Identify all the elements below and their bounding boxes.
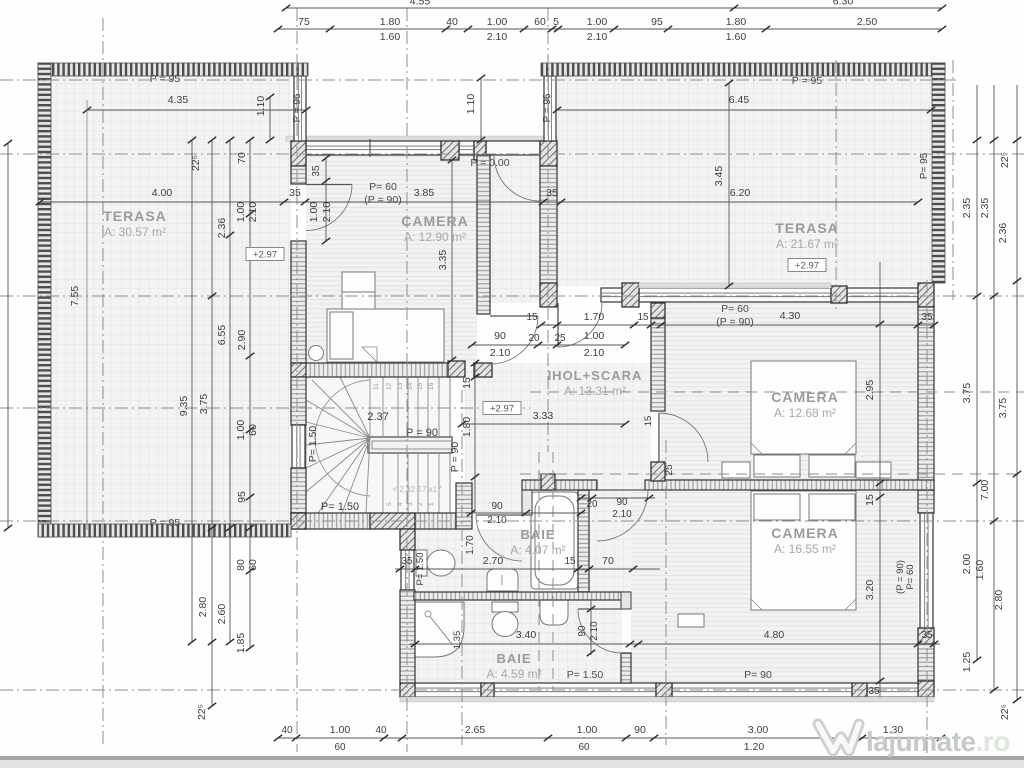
svg-text:BAIE: BAIE bbox=[520, 527, 555, 542]
door D7 baie jos bbox=[578, 608, 622, 610]
svg-text:1.60: 1.60 bbox=[726, 31, 747, 43]
svg-text:5: 5 bbox=[553, 16, 559, 28]
svg-text:1.70: 1.70 bbox=[584, 311, 605, 323]
door D5 baie sus bbox=[476, 514, 522, 516]
exterior gray trim top wall bbox=[286, 136, 557, 142]
svg-text:4.30: 4.30 bbox=[780, 310, 801, 322]
svg-text:P= 95: P= 95 bbox=[919, 152, 930, 179]
svg-text:90: 90 bbox=[491, 501, 503, 512]
svg-text:2.36: 2.36 bbox=[997, 223, 1009, 244]
svg-text:3.20: 3.20 bbox=[864, 580, 876, 601]
svg-text:P= 90: P= 90 bbox=[744, 669, 772, 681]
svg-text:3.75: 3.75 bbox=[997, 398, 1009, 419]
bottom chains bbox=[278, 737, 941, 739]
svg-text:P = 90: P = 90 bbox=[449, 442, 461, 473]
svg-text:1.00: 1.00 bbox=[584, 330, 605, 342]
camera/hol wall W4 bbox=[477, 155, 490, 314]
stair bottom wall W9 bbox=[291, 513, 306, 529]
camera 12.68 vertical x=880 bbox=[879, 262, 881, 697]
svg-text:1.00: 1.00 bbox=[235, 202, 247, 223]
svg-text:A: 16.55 m²: A: 16.55 m² bbox=[774, 542, 836, 556]
svg-text:4: 4 bbox=[397, 502, 404, 506]
P=96 window strips above bbox=[294, 76, 306, 141]
svg-text:P = 96: P = 96 bbox=[292, 93, 303, 122]
svg-text:6.45: 6.45 bbox=[729, 94, 750, 106]
door D1 dim bbox=[325, 158, 327, 241]
svg-text:6.30: 6.30 bbox=[833, 0, 854, 8]
svg-text:60: 60 bbox=[247, 424, 259, 436]
axis lines bbox=[0, 79, 960, 81]
door D3 hol top bbox=[557, 303, 559, 347]
bed camera 12.68 bbox=[722, 361, 891, 478]
svg-text:11: 11 bbox=[373, 383, 380, 390]
baie jos right wall W13 bbox=[621, 653, 631, 683]
svg-text:90: 90 bbox=[577, 625, 588, 637]
bath fixtures baie sus bbox=[416, 492, 578, 591]
svg-text:4.35: 4.35 bbox=[168, 94, 189, 106]
svg-text:90: 90 bbox=[494, 330, 506, 342]
stairs bbox=[306, 377, 452, 513]
bath fixtures baie jos bbox=[415, 600, 568, 657]
svg-text:2.80: 2.80 bbox=[197, 597, 209, 618]
svg-text:P= 60: P= 60 bbox=[905, 564, 916, 589]
svg-text:A: 13.31 m²: A: 13.31 m² bbox=[564, 384, 626, 398]
svg-text:20: 20 bbox=[586, 499, 598, 510]
door D6 camera 16.55 bbox=[597, 489, 648, 491]
camera 12.68 left wall W15 bbox=[651, 303, 665, 318]
svg-text:60: 60 bbox=[334, 742, 346, 753]
svg-text:2.00: 2.00 bbox=[961, 554, 973, 575]
svg-text:1.60: 1.60 bbox=[974, 560, 986, 581]
svg-text:2.60: 2.60 bbox=[216, 604, 228, 625]
svg-text:1.00: 1.00 bbox=[235, 420, 247, 441]
hol 3.33 bbox=[462, 423, 625, 425]
horizontal chain y=110 bbox=[87, 109, 306, 111]
svg-text:A: 30.57 m²: A: 30.57 m² bbox=[104, 225, 166, 239]
svg-text:A: 12.68 m²: A: 12.68 m² bbox=[774, 406, 836, 420]
svg-text:ІHOL+SCARA: ІHOL+SCARA bbox=[548, 368, 643, 383]
svg-text:CAMERA: CAMERA bbox=[771, 389, 838, 405]
svg-text:2.36: 2.36 bbox=[216, 218, 228, 239]
svg-text:+2.97: +2.97 bbox=[490, 404, 514, 415]
svg-text:15: 15 bbox=[864, 494, 876, 506]
svg-text:3.45: 3.45 bbox=[713, 166, 725, 187]
svg-text:2.10: 2.10 bbox=[490, 347, 511, 359]
svg-text:95: 95 bbox=[651, 16, 663, 28]
svg-text:1.10: 1.10 bbox=[255, 96, 267, 117]
top dimension chains bbox=[286, 7, 942, 9]
svg-text:2.70: 2.70 bbox=[483, 555, 504, 567]
svg-text:1.00: 1.00 bbox=[587, 16, 608, 28]
svg-text:1: 1 bbox=[428, 502, 435, 506]
left dim cluster bbox=[191, 140, 193, 642]
svg-text:3: 3 bbox=[407, 502, 414, 506]
svg-text:12: 12 bbox=[386, 382, 393, 390]
terasa right vertical 3.45 bbox=[728, 83, 730, 286]
svg-text:1.70: 1.70 bbox=[465, 535, 476, 555]
svg-text:35: 35 bbox=[546, 187, 558, 199]
svg-text:6.20: 6.20 bbox=[730, 187, 751, 199]
svg-text:22⁵: 22⁵ bbox=[999, 704, 1011, 720]
svg-text:P = 95: P = 95 bbox=[792, 75, 823, 87]
svg-text:P = 90: P = 90 bbox=[406, 427, 438, 439]
svg-text:(P = 90): (P = 90) bbox=[364, 194, 401, 206]
svg-text:15: 15 bbox=[643, 416, 654, 427]
svg-text:2.10: 2.10 bbox=[321, 202, 333, 223]
svg-text:1.35: 1.35 bbox=[452, 631, 463, 650]
svg-text:3.00: 3.00 bbox=[748, 724, 769, 736]
svg-text:2.95: 2.95 bbox=[864, 380, 876, 401]
svg-text:TERASA: TERASA bbox=[103, 208, 167, 224]
svg-text:4.00: 4.00 bbox=[152, 187, 173, 199]
svg-text:TERASA: TERASA bbox=[775, 220, 839, 236]
svg-text:CAMERA: CAMERA bbox=[771, 525, 838, 541]
svg-text:35: 35 bbox=[289, 187, 301, 199]
svg-text:2.80: 2.80 bbox=[993, 590, 1005, 611]
svg-text:3.40: 3.40 bbox=[516, 629, 537, 641]
svg-text:35: 35 bbox=[311, 165, 322, 177]
svg-text:P= 60: P= 60 bbox=[369, 181, 397, 193]
svg-text:CAMERA: CAMERA bbox=[401, 213, 468, 229]
svg-text:1.00: 1.00 bbox=[330, 724, 351, 736]
door D1 camera top bbox=[306, 184, 352, 186]
svg-text:35: 35 bbox=[921, 312, 933, 323]
svg-text:90: 90 bbox=[616, 497, 628, 508]
svg-text:16: 16 bbox=[428, 382, 435, 390]
svg-text:+2.97: +2.97 bbox=[253, 250, 277, 261]
camera divider W14 bbox=[645, 480, 934, 490]
svg-text:70: 70 bbox=[602, 555, 614, 567]
top wall W1 bbox=[306, 141, 441, 155]
left vertical 7.55 bbox=[7, 143, 9, 528]
bottom wall W8 bbox=[415, 683, 481, 697]
svg-text:60: 60 bbox=[578, 742, 590, 753]
door D8 entrance bbox=[494, 154, 540, 156]
svg-text:1.85: 1.85 bbox=[235, 633, 247, 654]
svg-text:2.10: 2.10 bbox=[584, 347, 605, 359]
svg-text:2.10: 2.10 bbox=[487, 515, 507, 526]
svg-text:40: 40 bbox=[281, 725, 293, 736]
svg-text:25: 25 bbox=[554, 333, 566, 344]
svg-text:P = 95: P = 95 bbox=[150, 517, 181, 529]
bed camera 16.55 bbox=[678, 491, 856, 627]
svg-text:3.85: 3.85 bbox=[414, 187, 435, 199]
svg-text:95: 95 bbox=[236, 491, 248, 503]
hol chain y=345 bbox=[472, 344, 625, 346]
svg-text:6.55: 6.55 bbox=[216, 325, 228, 346]
hol chain y=325 bbox=[541, 324, 934, 326]
door D2 camera-hol bbox=[490, 315, 538, 317]
baie sus right wall W11 bbox=[578, 490, 589, 592]
baie sus top wall W10 bbox=[522, 480, 597, 490]
baie chains bbox=[395, 568, 660, 570]
svg-text:40: 40 bbox=[446, 16, 458, 28]
svg-text:15: 15 bbox=[461, 377, 473, 389]
svg-text:P= 1.50: P= 1.50 bbox=[321, 501, 359, 513]
svg-text:90: 90 bbox=[634, 724, 646, 736]
svg-text:22⁵: 22⁵ bbox=[999, 152, 1011, 168]
svg-text:1.80: 1.80 bbox=[380, 16, 401, 28]
svg-text:4.80: 4.80 bbox=[764, 629, 785, 641]
svg-text:P = 96: P = 96 bbox=[542, 93, 553, 122]
svg-text:+2.97: +2.97 bbox=[795, 261, 819, 272]
svg-text:P= 1.50: P= 1.50 bbox=[307, 426, 319, 463]
svg-text:60: 60 bbox=[534, 16, 546, 28]
svg-text:35: 35 bbox=[401, 556, 413, 567]
terasa divider W5 bbox=[540, 166, 557, 287]
camera top vertical 3.35 bbox=[451, 160, 453, 360]
svg-text:15: 15 bbox=[564, 556, 576, 567]
svg-text:P = 0.00: P = 0.00 bbox=[470, 157, 509, 169]
svg-text:14: 14 bbox=[407, 382, 414, 390]
svg-text:1.20: 1.20 bbox=[744, 741, 765, 753]
svg-text:15: 15 bbox=[526, 312, 538, 323]
terasa left teeth border bbox=[38, 63, 308, 76]
right dim cluster bbox=[976, 85, 978, 660]
svg-text:2.90: 2.90 bbox=[236, 330, 248, 351]
svg-text:2.10: 2.10 bbox=[487, 31, 508, 43]
bottom strip bbox=[0, 756, 1024, 760]
baie divider W12 bbox=[414, 592, 630, 600]
svg-text:BAIE: BAIE bbox=[496, 651, 531, 666]
terasa right teeth border bbox=[541, 63, 945, 76]
door D4 camera 12.68 bbox=[658, 413, 660, 462]
svg-text:A: 4.07 m²: A: 4.07 m² bbox=[510, 543, 565, 557]
svg-text:3.33: 3.33 bbox=[533, 410, 554, 422]
svg-text:2.35: 2.35 bbox=[979, 198, 991, 219]
svg-text:1.00: 1.00 bbox=[577, 724, 598, 736]
svg-text:25: 25 bbox=[664, 464, 675, 476]
svg-text:20: 20 bbox=[528, 333, 540, 344]
svg-text:40: 40 bbox=[375, 725, 387, 736]
right wall W7 bbox=[918, 307, 934, 513]
svg-text:2.65: 2.65 bbox=[465, 724, 486, 736]
mid wall W6 bbox=[601, 288, 622, 302]
stair top wall W3 bbox=[306, 363, 448, 377]
svg-text:7.00: 7.00 bbox=[979, 480, 991, 501]
svg-text:60: 60 bbox=[247, 559, 259, 571]
svg-text:(P = 90): (P = 90) bbox=[716, 316, 753, 328]
svg-text:80: 80 bbox=[235, 559, 247, 571]
svg-text:13: 13 bbox=[397, 382, 404, 390]
svg-text:22⁵: 22⁵ bbox=[190, 155, 202, 171]
svg-text:70: 70 bbox=[236, 152, 248, 164]
svg-text:A: 4.59 m²: A: 4.59 m² bbox=[486, 667, 541, 681]
svg-text:2.37: 2.37 bbox=[367, 411, 388, 423]
svg-text:9.35: 9.35 bbox=[178, 396, 190, 417]
left wall W2 bbox=[291, 166, 306, 184]
svg-text:75: 75 bbox=[298, 16, 310, 28]
svg-text:A: 12.90 m²: A: 12.90 m² bbox=[404, 230, 466, 244]
svg-text:5: 5 bbox=[386, 502, 393, 506]
svg-text:3.75: 3.75 bbox=[198, 394, 210, 415]
svg-text:P= 1.50: P= 1.50 bbox=[415, 552, 426, 585]
svg-text:< 2.32·17 x17: < 2.32·17 x17 bbox=[392, 485, 442, 494]
left lower exterior wall bbox=[400, 529, 415, 550]
svg-text:35: 35 bbox=[868, 686, 880, 697]
svg-text:lajumate.ro: lajumate.ro bbox=[866, 726, 1010, 757]
svg-text:2.35: 2.35 bbox=[961, 198, 973, 219]
svg-text:1.80: 1.80 bbox=[726, 16, 747, 28]
svg-text:15: 15 bbox=[417, 382, 424, 390]
svg-text:2.10: 2.10 bbox=[612, 509, 632, 520]
svg-text:1.10: 1.10 bbox=[465, 94, 477, 115]
svg-text:2.10: 2.10 bbox=[247, 202, 259, 223]
horizontal chain y=202 bbox=[40, 201, 918, 203]
svg-text:1.00: 1.00 bbox=[308, 202, 320, 223]
svg-text:4.55: 4.55 bbox=[410, 0, 431, 8]
watermark logo bbox=[818, 724, 859, 751]
svg-text:2.50: 2.50 bbox=[857, 16, 878, 28]
stair vertical 1.80 bbox=[474, 363, 476, 513]
svg-text:15: 15 bbox=[637, 312, 649, 323]
svg-text:7.55: 7.55 bbox=[69, 286, 81, 307]
svg-text:P= 60: P= 60 bbox=[721, 303, 749, 315]
svg-text:35: 35 bbox=[921, 630, 933, 641]
svg-text:2.10: 2.10 bbox=[587, 31, 608, 43]
svg-text:1.60: 1.60 bbox=[380, 31, 401, 43]
svg-text:P = 95: P = 95 bbox=[150, 73, 181, 85]
svg-text:1.25: 1.25 bbox=[961, 652, 973, 673]
svg-text:3.75: 3.75 bbox=[961, 383, 973, 404]
svg-text:1.00: 1.00 bbox=[487, 16, 508, 28]
svg-text:2.10: 2.10 bbox=[589, 621, 600, 641]
bed camera top bbox=[309, 272, 445, 362]
svg-text:2: 2 bbox=[417, 502, 424, 506]
svg-text:A: 21.67 m²: A: 21.67 m² bbox=[776, 237, 838, 251]
svg-text:3.35: 3.35 bbox=[437, 250, 449, 271]
svg-text:P= 1.50: P= 1.50 bbox=[567, 669, 604, 681]
svg-text:22⁵: 22⁵ bbox=[196, 704, 208, 720]
svg-text:1.80: 1.80 bbox=[461, 417, 473, 438]
